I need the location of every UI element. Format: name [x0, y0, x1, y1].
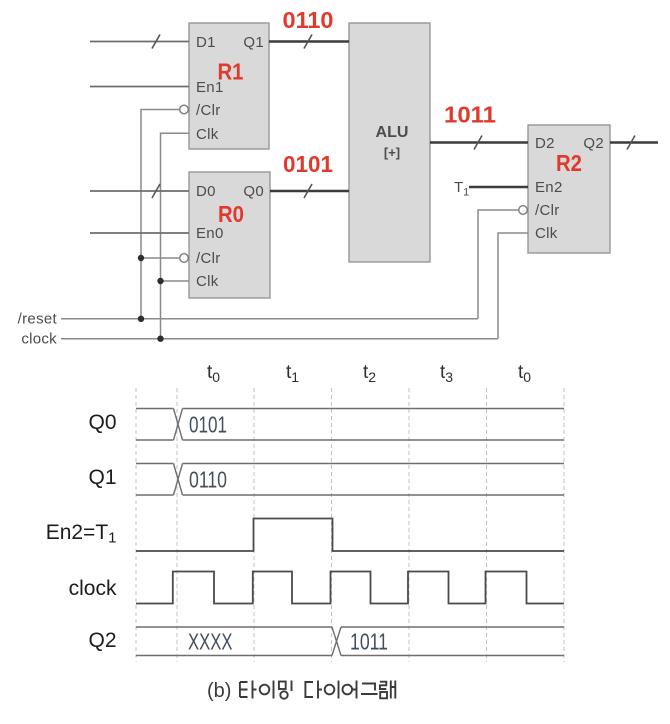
junction reset-vertical	[138, 316, 144, 322]
wire D1 input bus	[90, 41, 189, 43]
syllable 이 (2)	[325, 681, 339, 699]
svg-text:D1: D1	[196, 34, 216, 51]
signal En2	[136, 519, 564, 552]
svg-text:t1: t1	[286, 362, 299, 385]
wire T1 to En2	[469, 186, 528, 188]
svg-text:Q0: Q0	[88, 411, 116, 434]
svg-text:Clk: Clk	[535, 225, 558, 242]
syllable 밍	[279, 681, 292, 699]
svg-text:t0: t0	[207, 362, 220, 385]
caption korean: 타이밍 다이어그램	[240, 681, 395, 699]
wire R2 /Clr to reset net	[478, 210, 519, 319]
svg-text:0110: 0110	[283, 7, 334, 33]
svg-text:t2: t2	[363, 362, 376, 385]
svg-text:t0: t0	[518, 362, 531, 385]
svg-text:ALU: ALU	[376, 124, 409, 141]
svg-text:0101: 0101	[189, 412, 227, 438]
wire En1 input	[90, 86, 189, 88]
wire R1 /Clr to vertical	[141, 110, 180, 319]
svg-text:1011: 1011	[350, 629, 388, 655]
wire R2 Clk to clock net	[498, 233, 528, 339]
bus slash on Q0	[304, 184, 312, 198]
R0 /Clr bubble	[180, 254, 189, 263]
svg-text:/Clr: /Clr	[196, 102, 221, 119]
svg-text:R0: R0	[218, 201, 244, 227]
timing grid dashed lines	[136, 388, 564, 662]
wire Q2 output bus	[610, 141, 658, 143]
svg-text:/reset: /reset	[18, 310, 58, 327]
svg-text:[+]: [+]	[384, 145, 400, 160]
wire R1 Clk to vertical	[161, 133, 190, 338]
bus slash on D0 input	[152, 184, 160, 198]
svg-text:En2=T1: En2=T1	[46, 521, 117, 547]
signal Q2 bus	[136, 627, 564, 656]
svg-text:Q1: Q1	[243, 34, 264, 51]
signal Q0 bus	[136, 409, 564, 441]
syllable 이 (1)	[260, 681, 274, 699]
wire En0 input	[90, 232, 189, 234]
wire clock net	[61, 338, 498, 340]
syllable 다	[305, 681, 322, 699]
bus slash on D1 input	[152, 35, 160, 49]
R1 /Clr bubble	[180, 105, 189, 114]
svg-text:0101: 0101	[283, 151, 333, 177]
svg-text:clock: clock	[21, 330, 57, 347]
R2 /Clr bubble	[519, 206, 528, 215]
svg-text:Clk: Clk	[196, 273, 219, 290]
svg-text:Q2: Q2	[583, 135, 604, 152]
svg-text:(b): (b)	[207, 680, 231, 702]
svg-text:R1: R1	[218, 59, 244, 85]
svg-text:/Clr: /Clr	[196, 250, 221, 267]
wire D0 input bus	[90, 190, 189, 192]
junction /Clr net at R0	[138, 255, 144, 261]
svg-text:Q0: Q0	[243, 183, 264, 200]
bus slash on ALU output	[474, 136, 482, 150]
svg-text:Q1: Q1	[88, 466, 116, 489]
svg-text:/Clr: /Clr	[535, 202, 560, 219]
bus slash on Q2	[627, 136, 635, 150]
svg-text:En0: En0	[196, 225, 224, 242]
svg-text:Clk: Clk	[196, 126, 219, 143]
svg-text:1011: 1011	[444, 102, 496, 128]
syllable 타	[240, 681, 257, 699]
signal Q1 bus	[136, 464, 564, 496]
wire /reset net	[61, 318, 478, 320]
wire Q0 bus to ALU	[270, 190, 349, 192]
svg-text:XXXX: XXXX	[188, 629, 233, 655]
svg-text:D2: D2	[535, 135, 555, 152]
svg-text:clock: clock	[69, 577, 117, 600]
svg-text:Q2: Q2	[88, 629, 116, 652]
bus slash on Q1	[304, 35, 312, 49]
syllable 그	[361, 684, 378, 695]
svg-text:t3: t3	[440, 362, 453, 385]
register R2	[528, 125, 610, 253]
svg-text:En2: En2	[535, 179, 563, 196]
register R0	[189, 172, 270, 298]
junction clock net at R0	[157, 278, 163, 284]
syllable 램	[380, 681, 395, 699]
register R1	[189, 23, 269, 149]
wire ALU output bus	[430, 141, 528, 143]
svg-text:0110: 0110	[189, 467, 227, 493]
svg-text:T1: T1	[454, 179, 469, 199]
ALU U1	[349, 23, 430, 262]
svg-text:D0: D0	[196, 183, 216, 200]
wire Q1 bus to ALU	[269, 40, 349, 42]
wire R0 /Clr stub	[141, 257, 180, 259]
signal clock	[136, 572, 564, 604]
svg-text:R2: R2	[556, 150, 582, 176]
wire R0 Clk stub	[161, 280, 190, 282]
junction clock-vertical	[157, 336, 163, 342]
syllable 어	[343, 681, 357, 699]
